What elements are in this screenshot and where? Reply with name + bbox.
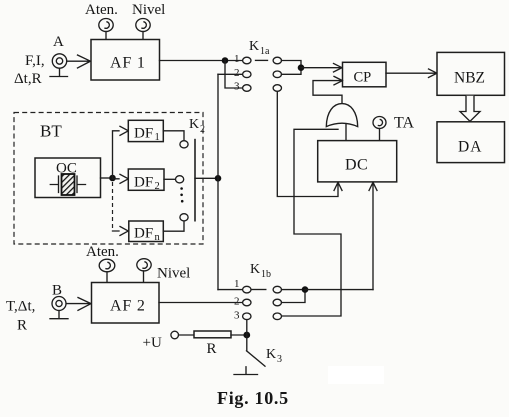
contact K1a left 3 <box>243 85 251 92</box>
svg-text:K: K <box>249 39 259 54</box>
contact K1b left 2 <box>243 299 251 306</box>
contact K2-1 <box>180 141 188 148</box>
knob Nivel AF2 <box>137 259 151 271</box>
wire knob Aten to AF2 <box>106 272 108 283</box>
svg-text:1: 1 <box>155 132 160 143</box>
wire bus vertical <box>217 74 219 289</box>
svg-text:2: 2 <box>234 296 240 308</box>
filter DF1 <box>128 120 163 141</box>
comparator CP <box>343 62 387 87</box>
wire bus into K1b-1 <box>218 289 243 291</box>
or-gate U1 <box>326 104 357 127</box>
svg-text:AF 1: AF 1 <box>110 55 146 72</box>
wire K2 output to bus <box>195 177 218 179</box>
block DA <box>437 122 505 163</box>
wire into DFn with arrow <box>113 227 129 236</box>
svg-text:3: 3 <box>234 81 240 93</box>
svg-text:1: 1 <box>234 53 240 65</box>
svg-text:Δt,R: Δt,R <box>14 71 42 87</box>
wire AF2 output to K1b-2 <box>159 302 243 304</box>
wire knob Aten to AF1 <box>105 32 107 40</box>
contact K2-n <box>180 214 188 221</box>
svg-text:3: 3 <box>277 354 282 365</box>
svg-text:2: 2 <box>234 67 240 79</box>
contact K1b right 2 <box>273 299 281 306</box>
block arrow NBZ to DA <box>460 96 480 122</box>
svg-text:Nivel: Nivel <box>157 266 190 282</box>
svg-text:BT: BT <box>40 122 62 141</box>
svg-text:1a: 1a <box>260 46 270 57</box>
svg-text:NBZ: NBZ <box>454 70 485 87</box>
terminal B <box>52 297 66 311</box>
contact K2-2 <box>176 176 184 183</box>
svg-text:K: K <box>189 117 199 132</box>
svg-text:+U: +U <box>143 335 162 351</box>
ellipsis dots K2 <box>180 187 183 190</box>
wire gate output zigzag to CP with arrow <box>313 76 343 103</box>
contact K1b left 1 <box>243 286 251 293</box>
wire B to AF2 with arrow <box>67 298 92 311</box>
svg-text:Nivel: Nivel <box>132 2 165 18</box>
contact K1a right 1 <box>273 57 281 64</box>
svg-text:1b: 1b <box>261 269 271 280</box>
terminal A ground tick <box>50 69 68 77</box>
filter DFn <box>129 221 164 242</box>
knob Nivel AF1 <box>136 19 150 32</box>
contact K1a right 3 <box>273 85 281 92</box>
svg-text:R: R <box>207 341 217 357</box>
wire AF1 output to K1a <box>160 60 243 62</box>
contact K1a right 2 <box>273 71 281 78</box>
svg-text:A: A <box>53 34 64 50</box>
decoder DC <box>318 141 397 182</box>
wire DF1 to K2 contact 1 <box>163 131 184 141</box>
wiper dash K1a <box>256 59 268 61</box>
svg-text:F,I,: F,I, <box>25 53 45 69</box>
wire OC output <box>101 177 113 179</box>
wire K1a output to CP with arrow <box>301 64 342 73</box>
svg-text:n: n <box>155 232 161 243</box>
wire A to AF1 with arrow <box>67 55 91 68</box>
white patch bottom right <box>328 366 384 384</box>
wire bus stub to K1a-2 <box>218 73 243 75</box>
svg-text:TA: TA <box>394 115 414 132</box>
ground <box>234 367 258 375</box>
node AF1 output junction <box>222 57 229 64</box>
terminal B ground tick <box>50 311 68 319</box>
wire K1b junction to DC riser <box>305 289 373 291</box>
node bus x K2 junction <box>215 175 222 182</box>
wire junction to DF2 with arrow <box>113 174 129 183</box>
dashed block BT <box>14 113 203 245</box>
wire junction to DF1 with arrow <box>113 126 129 178</box>
svg-text:T,Δt,: T,Δt, <box>6 299 35 315</box>
wire gate center input from DC <box>345 125 347 141</box>
wire DF2 to K2 contact 2 <box>164 178 175 180</box>
wire junction down to K1a-3 <box>225 61 243 89</box>
svg-text:K: K <box>266 347 276 362</box>
resistor R <box>194 331 231 338</box>
wire K1b junction up to DC with arrow <box>369 182 377 289</box>
svg-text:DF: DF <box>134 126 153 142</box>
terminal A <box>52 54 66 68</box>
wire K1a-3 down to DC with arrow <box>277 92 342 197</box>
wire TA to DC <box>379 129 381 141</box>
contact K1b right 3 <box>273 313 281 320</box>
wire knob Nivel to AF2 <box>143 271 145 283</box>
node OC output junction <box>109 175 116 182</box>
wiper dash K1b <box>252 289 266 291</box>
K2 wiper bar <box>194 139 196 222</box>
svg-text:2: 2 <box>200 124 205 135</box>
svg-text:R: R <box>17 318 27 334</box>
node K1a output junction <box>298 64 305 71</box>
svg-text:DC: DC <box>345 157 368 174</box>
terminal +U <box>171 331 179 339</box>
amplifier AF1 <box>91 40 160 81</box>
svg-text:AF 2: AF 2 <box>110 298 146 315</box>
svg-text:DF: DF <box>134 175 153 191</box>
wire K1b right 1+2 merge <box>282 290 306 303</box>
knob Aten AF2 <box>99 259 115 272</box>
wire R to junction <box>231 334 247 336</box>
svg-text:1: 1 <box>234 278 240 290</box>
wire DFn to K2 contact n <box>163 221 184 231</box>
svg-text:DF: DF <box>134 226 153 242</box>
wire junction up to K1b-3 <box>246 320 248 335</box>
contact K1a left 1 <box>243 57 251 64</box>
contact K1b right 1 <box>273 286 281 293</box>
contact K1b left 3 <box>243 313 251 320</box>
crystal symbol <box>50 176 85 193</box>
svg-text:Fig. 10.5: Fig. 10.5 <box>217 388 289 408</box>
wire knob Nivel to AF1 <box>142 32 144 40</box>
knob Aten AF1 <box>99 19 113 32</box>
wire +U to R <box>179 334 195 336</box>
svg-text:CP: CP <box>354 70 372 86</box>
amplifier AF2 <box>92 283 160 324</box>
block NBZ <box>437 52 505 95</box>
filter DF2 <box>128 169 164 190</box>
wire gate left input from K1b-3 <box>282 129 341 316</box>
svg-text:2: 2 <box>155 181 160 192</box>
wire K1a right 1+2 merge <box>282 61 302 75</box>
svg-text:Aten.: Aten. <box>85 2 118 18</box>
node K1b output junction <box>302 286 309 293</box>
contact K1a left 2 <box>243 71 251 78</box>
oscillator OC box <box>35 158 101 198</box>
svg-text:DA: DA <box>458 139 482 156</box>
svg-text:Aten.: Aten. <box>86 244 119 260</box>
switch K3 blade <box>247 335 266 366</box>
svg-text:K: K <box>250 262 260 277</box>
node R junction <box>243 332 250 339</box>
knob TA <box>373 117 386 129</box>
svg-text:3: 3 <box>234 310 240 322</box>
wire CP to NBZ with arrow <box>386 69 437 78</box>
dashed wire junction to DFn <box>112 182 114 231</box>
